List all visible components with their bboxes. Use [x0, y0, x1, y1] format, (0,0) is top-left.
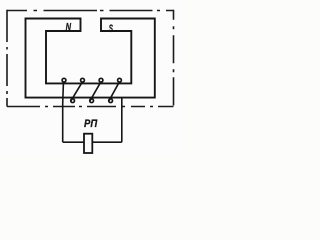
coil L1 winding slant 1	[71, 83, 82, 101]
svg-text:РП: РП	[84, 118, 98, 130]
relay winding box РП	[84, 134, 92, 153]
device boundary dash-dot frame bottom edge	[7, 106, 174, 108]
device boundary dash-dot frame top edge	[7, 10, 174, 12]
coil L1 top loop 2	[81, 78, 85, 82]
device boundary dash-dot frame right edge	[173, 10, 175, 107]
wire: left coil lead down to relay	[62, 83, 65, 143]
wire: left lead horizontal to relay box	[63, 141, 84, 143]
wire: right coil lead down to relay	[121, 98, 123, 143]
coil L1 bottom loop 3	[109, 99, 113, 103]
device boundary dash-dot frame left edge	[6, 10, 8, 107]
wire: right lead horizontal to relay box	[92, 141, 122, 143]
coil L1 winding slant 3	[109, 83, 119, 101]
coil L1 bottom loop 2	[90, 99, 94, 103]
coil L1 winding slant 2	[90, 83, 101, 101]
coil L1 top loop 1	[62, 78, 66, 82]
coil L1 top loop 3	[99, 78, 103, 82]
svg-text:N: N	[66, 22, 72, 34]
magnet core (U-core with N/S pole bars)	[26, 19, 155, 98]
coil L1 bottom loop 1	[71, 99, 75, 103]
coil L1 top loop 4	[118, 78, 122, 82]
svg-text:S: S	[109, 23, 114, 35]
